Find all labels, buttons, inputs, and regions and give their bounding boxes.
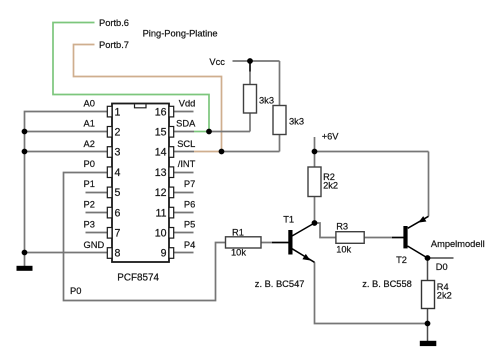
svg-text:z. B. BC558: z. B. BC558 [362, 279, 412, 289]
svg-text:P3: P3 [84, 220, 95, 230]
svg-text:1: 1 [115, 106, 121, 118]
svg-text:R1: R1 [232, 227, 244, 237]
svg-text:3k3: 3k3 [259, 95, 274, 105]
svg-text:SCL: SCL [177, 139, 195, 149]
svg-text:5: 5 [115, 187, 121, 199]
svg-text:A0: A0 [84, 98, 95, 108]
svg-text:Vcc: Vcc [209, 57, 225, 67]
svg-text:PCF8574: PCF8574 [117, 272, 159, 283]
svg-text:14: 14 [155, 147, 167, 159]
svg-text:Ping-Pong-Platine: Ping-Pong-Platine [143, 28, 218, 38]
svg-text:SDA: SDA [176, 119, 196, 129]
svg-text:T1: T1 [283, 214, 294, 224]
svg-text:8: 8 [115, 248, 121, 260]
svg-text:/INT: /INT [178, 159, 196, 169]
svg-text:P0: P0 [84, 159, 95, 169]
svg-text:GND: GND [84, 240, 105, 250]
svg-text:10: 10 [155, 228, 167, 240]
svg-text:3k3: 3k3 [289, 117, 304, 127]
svg-text:D0: D0 [436, 262, 448, 272]
svg-text:z. B. BC547: z. B. BC547 [255, 279, 305, 289]
svg-text:A2: A2 [84, 139, 95, 149]
svg-text:16: 16 [155, 106, 167, 118]
svg-text:Ampelmodell: Ampelmodell [431, 239, 485, 249]
svg-text:P0: P0 [70, 286, 81, 296]
svg-text:6: 6 [115, 207, 121, 219]
svg-text:2k2: 2k2 [437, 291, 452, 301]
svg-text:7: 7 [115, 228, 121, 240]
svg-text:12: 12 [155, 187, 167, 199]
svg-text:10k: 10k [231, 247, 246, 257]
svg-text:3: 3 [115, 147, 121, 159]
svg-text:Portb.7: Portb.7 [99, 40, 129, 50]
svg-text:2: 2 [115, 127, 121, 139]
svg-text:2k2: 2k2 [323, 180, 338, 190]
svg-text:+6V: +6V [322, 131, 340, 141]
svg-text:T2: T2 [396, 255, 407, 265]
svg-text:P4: P4 [184, 240, 195, 250]
svg-text:Vdd: Vdd [179, 98, 196, 108]
svg-text:9: 9 [161, 248, 167, 260]
svg-text:4: 4 [115, 167, 121, 179]
svg-text:P6: P6 [184, 199, 195, 209]
svg-text:15: 15 [155, 127, 167, 139]
svg-text:P1: P1 [84, 179, 95, 189]
svg-text:13: 13 [155, 167, 167, 179]
svg-text:P7: P7 [184, 179, 195, 189]
svg-text:P5: P5 [184, 220, 195, 230]
svg-text:10k: 10k [336, 244, 351, 254]
svg-text:A1: A1 [84, 119, 95, 129]
svg-text:Portb.6: Portb.6 [99, 18, 129, 28]
svg-text:P2: P2 [84, 199, 95, 209]
svg-text:R3: R3 [336, 222, 348, 232]
svg-text:11: 11 [156, 207, 167, 219]
